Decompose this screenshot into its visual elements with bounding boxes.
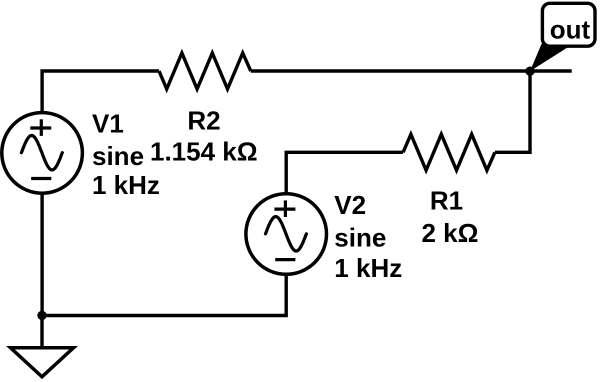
svg-text:1 kHz: 1 kHz	[92, 170, 160, 200]
svg-text:1.154 kΩ: 1.154 kΩ	[150, 137, 258, 167]
svg-text:sine: sine	[334, 223, 386, 253]
wire R1 to V2 top	[286, 152, 403, 193]
junction node ground	[37, 311, 46, 320]
wire V1 bottom to ground node	[40, 194, 43, 316]
svg-text:R1: R1	[430, 186, 463, 216]
resistor R1	[403, 134, 495, 170]
svg-text:sine: sine	[92, 141, 144, 171]
callout tail	[530, 44, 569, 71]
voltage source V2	[246, 194, 327, 275]
wire top-left corner: V1 top to R2	[42, 71, 159, 112]
callout box out	[542, 3, 595, 46]
wire R2 to node out	[251, 69, 572, 72]
svg-text:1 kHz: 1 kHz	[334, 253, 402, 283]
wire bottom: ground node to V2 bottom	[42, 275, 286, 316]
svg-text:R2: R2	[187, 105, 220, 135]
svg-text:V2: V2	[334, 190, 366, 220]
svg-text:2 kΩ: 2 kΩ	[422, 218, 479, 248]
resistor R2	[159, 53, 251, 89]
svg-text:V1: V1	[92, 109, 124, 139]
ground	[11, 348, 74, 377]
svg-text:out: out	[550, 14, 591, 44]
wire node out down to R1	[495, 71, 530, 152]
junction node out	[525, 67, 534, 76]
voltage source V1	[2, 113, 83, 194]
wire ground stem	[40, 316, 43, 349]
